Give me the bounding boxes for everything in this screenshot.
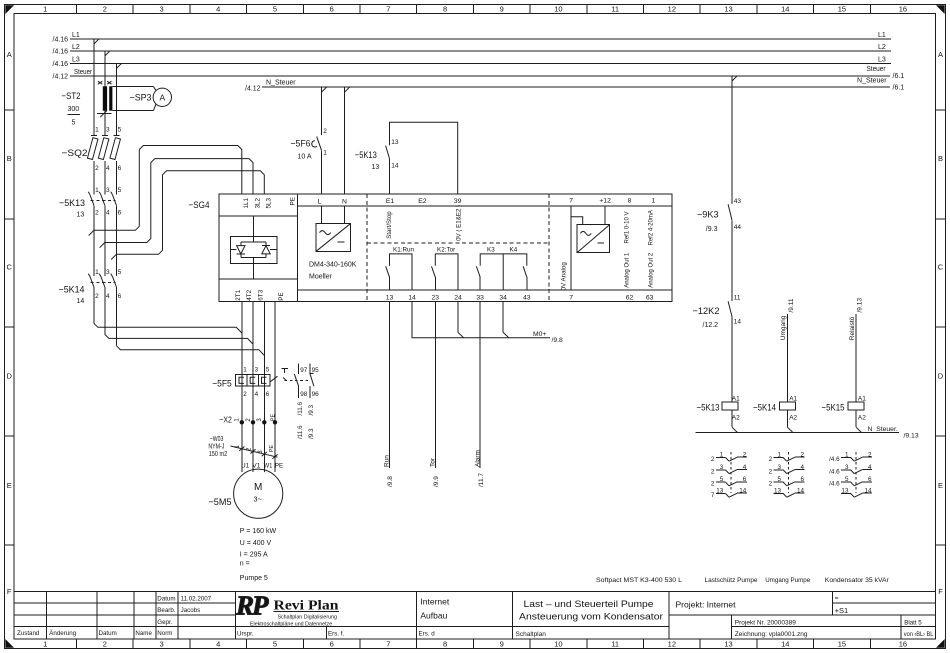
svg-text:Ansteuerung vom Kondensator: Ansteuerung vom Kondensator (519, 612, 663, 622)
document info cells (157, 595, 435, 637)
svg-text:4: 4 (216, 4, 220, 13)
svg-text:15: 15 (838, 4, 846, 13)
svg-text:K1:Run: K1:Run (393, 246, 415, 253)
-SG4 power converter symbol (316, 224, 350, 252)
svg-text:I = 295 A: I = 295 A (240, 551, 268, 558)
svg-text:1: 1 (323, 150, 327, 157)
current transformer -ST2 (62, 81, 113, 126)
circuit breaker -5F6 (291, 87, 328, 194)
svg-text:B: B (7, 154, 12, 163)
svg-text:Umgang: Umgang (780, 315, 787, 340)
-SG4 top terminal labels L N E1 E2 39 (318, 198, 462, 206)
junction L1 tap (94, 39, 99, 44)
overload relay -5F5 (212, 367, 310, 399)
svg-text:1: 1 (95, 127, 99, 134)
svg-text:Steuer: Steuer (867, 66, 887, 73)
svg-text:PE: PE (290, 197, 297, 205)
svg-text:+12: +12 (599, 198, 611, 205)
logo Revi Plan (235, 591, 339, 628)
svg-text:+S1: +S1 (835, 606, 849, 615)
svg-text:13: 13 (391, 139, 399, 146)
contact table -5K13 (711, 451, 747, 499)
-SG4 analog converter symbol (577, 225, 610, 253)
svg-text:Lastschütz Pumpe: Lastschütz Pumpe (705, 577, 758, 584)
svg-text:2: 2 (103, 4, 107, 13)
svg-text:Pumpe 5: Pumpe 5 (240, 575, 268, 582)
corner triangle top-left (5, 5, 14, 14)
contactor coil -5K14 (753, 395, 798, 432)
soft starter -SG4 outline (189, 194, 673, 301)
svg-text:3: 3 (106, 127, 110, 134)
svg-text:L2: L2 (72, 44, 80, 51)
svg-text:12: 12 (668, 640, 676, 649)
-SG4 internal wires L N to converter (322, 206, 345, 224)
junction Steuer tap to -9K3 (732, 76, 737, 81)
svg-text:C: C (6, 263, 12, 272)
svg-text:M: M (254, 482, 262, 493)
svg-text:9: 9 (500, 640, 504, 649)
wire 6T3 to motor (263, 301, 265, 472)
svg-text:3: 3 (159, 640, 163, 649)
svg-text:97: 97 (300, 367, 308, 374)
svg-text:Steuer: Steuer (74, 69, 93, 76)
svg-text:A2: A2 (789, 415, 797, 422)
svg-text:5: 5 (118, 127, 122, 134)
svg-text:/9.3: /9.3 (308, 428, 315, 439)
svg-text:/12.2: /12.2 (703, 322, 719, 329)
svg-text:U1: U1 (241, 462, 250, 469)
svg-text:PE: PE (275, 462, 283, 469)
svg-text:−X2: −X2 (219, 415, 232, 425)
svg-text:W1: W1 (264, 462, 273, 469)
svg-text:7: 7 (386, 4, 390, 13)
svg-text:A: A (938, 50, 943, 59)
svg-text:L3: L3 (72, 57, 80, 64)
svg-text:N_Steuer: N_Steuer (857, 78, 887, 85)
svg-text:Relaistö: Relaistö (849, 316, 856, 340)
wire phase L2 vertical (104, 51, 106, 335)
title block grid (14, 591, 936, 638)
svg-text:/4.16: /4.16 (53, 49, 69, 56)
wire Umgang to coil -5K14 (780, 298, 795, 402)
svg-text:4: 4 (216, 640, 220, 649)
svg-text:10 A: 10 A (298, 154, 312, 161)
svg-text:16: 16 (899, 4, 907, 13)
svg-text:/9.9: /9.9 (433, 476, 440, 487)
wire -5K14 pole1 to 2T1 column (94, 323, 242, 333)
svg-text:−ST2: −ST2 (62, 91, 81, 102)
svg-text:/4.12: /4.12 (245, 86, 261, 93)
svg-text:Projekt: Internet: Projekt: Internet (676, 600, 737, 610)
svg-text:98: 98 (300, 391, 308, 398)
svg-text:150 m2: 150 m2 (209, 451, 228, 458)
svg-text:DM4-340-160K: DM4-340-160K (309, 262, 357, 269)
svg-text:E: E (938, 481, 943, 490)
svg-text:6: 6 (118, 210, 122, 217)
auxiliary contact -5F5 97/98 (294, 363, 308, 439)
svg-text:11: 11 (611, 640, 619, 649)
svg-text:−12K2: −12K2 (693, 306, 720, 317)
svg-text:/4.6: /4.6 (829, 456, 840, 463)
svg-text:L1: L1 (72, 32, 80, 39)
relay contact K1:Run (386, 246, 415, 289)
svg-text:N_Steuer.: N_Steuer. (868, 426, 898, 433)
svg-text:14: 14 (734, 319, 742, 326)
svg-text:D: D (938, 372, 944, 381)
svg-text:14: 14 (391, 163, 399, 170)
svg-text:von ‹BL› BL: von ‹BL› BL (904, 631, 934, 638)
svg-text:Ref1 0-10 V: Ref1 0-10 V (625, 211, 631, 243)
svg-text:2: 2 (95, 165, 99, 172)
svg-text:A: A (7, 50, 12, 59)
svg-text:Analog Out 2: Analog Out 2 (648, 252, 654, 288)
svg-text:/9.11: /9.11 (788, 298, 795, 312)
contact area dashed separator (367, 242, 549, 244)
svg-text:5: 5 (273, 640, 277, 649)
svg-text:2: 2 (711, 481, 715, 488)
svg-text:10: 10 (554, 640, 562, 649)
svg-text:2: 2 (95, 210, 99, 217)
svg-text:N: N (342, 199, 347, 206)
svg-text:/9.3: /9.3 (308, 404, 315, 415)
svg-text:1: 1 (43, 4, 47, 13)
-SG4 analog section wires (571, 206, 605, 290)
stair-step wire L1 branch to -SG4 terminal 1L1 (94, 146, 242, 231)
svg-text:n =: n = (240, 560, 250, 567)
svg-text:300: 300 (68, 106, 80, 113)
bus L1 (53, 32, 892, 44)
svg-text:2: 2 (769, 456, 773, 463)
ammeter -SP3 (112, 87, 171, 111)
svg-text:/4.16: /4.16 (53, 61, 69, 68)
wire -5K14 pole2 to 4T2 column (105, 334, 253, 344)
-SG4 analog terminal labels bottom (569, 294, 653, 301)
svg-text:34: 34 (499, 294, 507, 301)
svg-text:E1: E1 (386, 198, 395, 205)
svg-text:5: 5 (118, 187, 122, 194)
svg-text:PE: PE (271, 414, 277, 422)
relay contact K3 (476, 246, 503, 289)
svg-text:L2: L2 (878, 44, 886, 51)
wire 2T1 to motor (241, 301, 243, 472)
svg-text:U = 400 V: U = 400 V (240, 540, 272, 547)
corner triangle bottom-left (5, 639, 14, 648)
svg-text:Aufbau: Aufbau (420, 610, 447, 620)
-SG4 terminal labels 1L1 3L2 5L3 PE (243, 197, 296, 208)
svg-text:7: 7 (711, 492, 715, 499)
svg-text:2: 2 (95, 293, 99, 300)
svg-text:−SQ2: −SQ2 (62, 148, 88, 159)
auxiliary contact -12K2 11/14 (693, 295, 742, 395)
svg-text:3: 3 (106, 187, 110, 194)
relay contact K2:Tor (432, 246, 459, 289)
svg-text:2: 2 (711, 456, 715, 463)
svg-text:V1: V1 (252, 462, 261, 469)
svg-text:B: B (938, 154, 943, 163)
svg-text:D: D (6, 372, 12, 381)
svg-text:Zeichnung: vpla0001.zng: Zeichnung: vpla0001.zng (735, 631, 808, 638)
svg-text:12: 12 (668, 4, 676, 13)
svg-text:F: F (7, 587, 12, 596)
svg-text:43: 43 (523, 294, 531, 301)
svg-text:0V ( E1&E2 ): 0V ( E1&E2 ) (455, 205, 462, 241)
project cell (676, 595, 934, 638)
svg-text:11: 11 (734, 295, 741, 302)
svg-text:14: 14 (408, 294, 416, 301)
svg-text:RP: RP (235, 591, 269, 621)
svg-text:A: A (159, 93, 165, 103)
svg-text:/9.8: /9.8 (387, 476, 394, 487)
svg-text:62: 62 (626, 294, 634, 301)
row strip dividers (5, 110, 946, 545)
svg-text:Run: Run (384, 455, 391, 467)
revision table labels (17, 630, 172, 637)
svg-text:13: 13 (372, 164, 380, 171)
svg-text:1: 1 (652, 198, 656, 205)
svg-text:6: 6 (330, 4, 334, 13)
svg-text:6: 6 (118, 293, 122, 300)
svg-text:/6.1: /6.1 (893, 73, 905, 80)
svg-text:Bearb.: Bearb. (157, 607, 176, 614)
svg-text:7: 7 (569, 294, 573, 301)
relay contact K4 (503, 246, 527, 289)
svg-text:NYM-J: NYM-J (208, 444, 224, 451)
svg-text:13: 13 (724, 4, 732, 13)
svg-text:5: 5 (72, 120, 76, 127)
corner triangle bottom-right (936, 639, 945, 648)
bus L3 (53, 57, 892, 69)
svg-text:−5K14: −5K14 (753, 403, 776, 414)
contactor contact -5K14 main poles (59, 269, 122, 305)
svg-text:7: 7 (386, 640, 390, 649)
svg-text:3: 3 (159, 4, 163, 13)
svg-text:Norm: Norm (157, 630, 172, 637)
motor -5M5 (209, 462, 284, 518)
wire Tor from terminal 23 (429, 301, 440, 487)
junction L3 tap (116, 63, 121, 68)
bus L2 (53, 44, 892, 56)
svg-text:14: 14 (77, 298, 85, 305)
svg-text:13: 13 (386, 294, 394, 301)
svg-text:Analog Out 1: Analog Out 1 (625, 252, 631, 288)
svg-text:24: 24 (454, 294, 462, 301)
svg-text:/4.16: /4.16 (53, 37, 69, 44)
svg-text:−5K15: −5K15 (822, 403, 845, 414)
svg-text:1: 1 (243, 367, 247, 374)
svg-text:Änderung: Änderung (49, 630, 76, 637)
svg-text:33: 33 (476, 294, 484, 301)
svg-text:2: 2 (769, 481, 773, 488)
svg-text:K2:Tor: K2:Tor (437, 246, 455, 253)
svg-text:95: 95 (312, 367, 320, 374)
svg-text:/4.6: /4.6 (829, 481, 840, 488)
contact table -5K14 (769, 451, 805, 497)
svg-text:/11.7: /11.7 (478, 473, 485, 487)
svg-text:Gepr.: Gepr. (157, 619, 172, 626)
wire PE to motor (274, 301, 276, 472)
svg-text:2: 2 (103, 640, 107, 649)
junction L2 tap (105, 51, 110, 56)
svg-text:3: 3 (255, 367, 259, 374)
svg-text:5L3: 5L3 (266, 197, 273, 208)
wire phase L1 vertical (93, 39, 95, 324)
svg-text:Zustand: Zustand (17, 630, 40, 637)
svg-text:PE: PE (269, 445, 275, 453)
svg-text:−SG4: −SG4 (189, 200, 210, 211)
svg-text:−W03: −W03 (210, 436, 224, 443)
svg-text:Umgang Pumpe: Umgang Pumpe (765, 577, 810, 584)
svg-text:15: 15 (838, 640, 846, 649)
function description texts (596, 577, 890, 584)
svg-text:6T3: 6T3 (257, 289, 264, 300)
svg-text:Tor: Tor (429, 457, 436, 467)
svg-text:A1: A1 (858, 395, 866, 402)
svg-text:1L1: 1L1 (243, 197, 250, 208)
svg-text:6: 6 (118, 165, 122, 172)
wire N to -SG4 (344, 87, 346, 194)
junction tap on L3 column (111, 254, 116, 259)
svg-text:L: L (318, 199, 322, 206)
svg-text:Start/Stop: Start/Stop (386, 211, 393, 239)
svg-text:Last – und Steuerteil Pumpe: Last – und Steuerteil Pumpe (524, 599, 654, 609)
svg-text:0V Analog: 0V Analog (560, 262, 567, 291)
svg-text:1: 1 (95, 269, 99, 276)
svg-text:F: F (938, 587, 943, 596)
svg-text:/4.6: /4.6 (829, 468, 840, 475)
auxiliary contact -9K3 43/44 (697, 76, 741, 301)
svg-text:A1: A1 (789, 395, 797, 402)
svg-text:Schaltplan Digitalisierung: Schaltplan Digitalisierung (278, 615, 338, 621)
svg-text:2: 2 (243, 391, 247, 398)
svg-text:−5K13: −5K13 (59, 198, 85, 209)
bus N_Steuer coil return (696, 426, 919, 440)
wire -5K14 pole3 to 6T3 column (116, 346, 264, 356)
fuse switch -SQ2 (62, 127, 122, 173)
-SG4 bottom terminal labels 13 14 23 24 33 34 43 (386, 294, 531, 301)
sheet function cell (420, 597, 449, 621)
stair-step wire L2 branch to -SG4 terminal 3L2 (105, 159, 253, 243)
motor data text (240, 528, 277, 582)
svg-text:5: 5 (118, 269, 122, 276)
contact table -5K15 (829, 451, 872, 497)
svg-text:Elektroschaltpläne und Datenne: Elektroschaltpläne und Datennetze (250, 621, 332, 627)
svg-text:6: 6 (266, 391, 270, 398)
svg-text:K4: K4 (510, 246, 518, 253)
svg-text:96: 96 (312, 391, 320, 398)
cable -W03 (208, 436, 277, 459)
junction N_Steuer tap to L (322, 87, 327, 92)
svg-text:4: 4 (106, 210, 110, 217)
-SG4 terminal labels 2T1 4T2 6T3 PE (235, 289, 285, 300)
svg-text:3L2: 3L2 (254, 197, 261, 208)
svg-text:Jacobs: Jacobs (181, 607, 201, 614)
svg-text:/9.13: /9.13 (904, 433, 919, 440)
svg-text:/6.1: /6.1 (893, 85, 905, 92)
svg-text:L3: L3 (878, 57, 886, 64)
svg-text:−5K13: −5K13 (697, 403, 720, 414)
wire Run from terminal 13 (384, 301, 395, 487)
svg-text:Internet: Internet (420, 597, 449, 607)
svg-text:4: 4 (106, 165, 110, 172)
bus Steuer (53, 66, 905, 81)
svg-text:E2: E2 (418, 198, 427, 205)
terminal strip -X2 (219, 414, 277, 425)
svg-text:Blatt 5: Blatt 5 (904, 620, 922, 627)
svg-text:2: 2 (323, 128, 327, 135)
svg-text:4: 4 (255, 391, 259, 398)
svg-text:2: 2 (769, 468, 773, 475)
wire Relaisstoerung to coil -5K15 (849, 298, 864, 402)
contactor coil -5K13 (697, 394, 741, 433)
svg-text:Kondensator 35 kVAr: Kondensator 35 kVAr (825, 577, 890, 584)
svg-text:63: 63 (646, 294, 654, 301)
svg-text:2: 2 (711, 468, 715, 475)
svg-text:13: 13 (724, 640, 732, 649)
svg-text:E: E (7, 481, 12, 490)
svg-text:Ref2 4-20mA: Ref2 4-20mA (648, 210, 654, 245)
svg-text:14: 14 (781, 640, 789, 649)
svg-text:5: 5 (266, 367, 270, 374)
svg-text:4T2: 4T2 (246, 289, 253, 300)
svg-text:1: 1 (43, 640, 47, 649)
svg-text:A1: A1 (732, 395, 740, 402)
drawing title (516, 599, 664, 638)
svg-text:N_Steuer: N_Steuer (266, 80, 296, 87)
svg-text:Softpact MST K3-400 530 L: Softpact MST K3-400 530 L (596, 577, 682, 584)
svg-text:Ers. f.: Ers. f. (328, 630, 344, 637)
stair-step wire L3 branch to -SG4 terminal 5L3 (116, 171, 264, 255)
svg-text:Urspr.: Urspr. (237, 630, 254, 637)
svg-text:A2: A2 (732, 415, 740, 422)
svg-text:6: 6 (330, 640, 334, 649)
svg-text:5: 5 (273, 4, 277, 13)
svg-text:14: 14 (781, 4, 789, 13)
svg-text:39: 39 (454, 198, 462, 205)
svg-text:3~: 3~ (253, 495, 262, 504)
svg-text:Ers. d: Ers. d (419, 630, 436, 637)
junction tap on L1 column (89, 230, 94, 235)
svg-text:Name: Name (135, 630, 152, 637)
svg-text:−SP3: −SP3 (130, 93, 152, 104)
svg-text:=: = (835, 595, 839, 602)
svg-text:9: 9 (500, 4, 504, 13)
svg-text:/9.3: /9.3 (706, 226, 718, 233)
svg-text:13: 13 (77, 212, 85, 219)
svg-text:4: 4 (106, 293, 110, 300)
svg-text:P = 160 kW: P = 160 kW (240, 528, 277, 535)
svg-text:11: 11 (611, 4, 619, 13)
svg-text:Projekt Nr. 20000389: Projekt Nr. 20000389 (735, 620, 796, 627)
svg-text:C: C (938, 263, 944, 272)
svg-text:8: 8 (443, 640, 447, 649)
svg-text:/11.6: /11.6 (297, 425, 304, 439)
svg-text:8: 8 (628, 198, 632, 205)
bus M0+ from terminals 14 24 34 (412, 301, 563, 344)
svg-text:43: 43 (734, 198, 742, 205)
svg-text:Schaltplan: Schaltplan (516, 631, 547, 638)
-SG4 type label (309, 262, 357, 281)
wire Alarm from terminal 33 (474, 301, 485, 487)
contactor contact -5K13 main poles (59, 187, 122, 219)
svg-text:8: 8 (443, 4, 447, 13)
svg-text:/9.13: /9.13 (857, 298, 864, 313)
svg-text:Datum: Datum (99, 630, 117, 637)
auxiliary contact -5K13 13/14 with E1-39 loop (355, 122, 458, 194)
svg-text:K3: K3 (487, 246, 495, 253)
svg-text:/4.12: /4.12 (53, 74, 69, 81)
auxiliary contact -5F5 95/96 (308, 363, 319, 439)
svg-text:M0+: M0+ (533, 331, 546, 338)
